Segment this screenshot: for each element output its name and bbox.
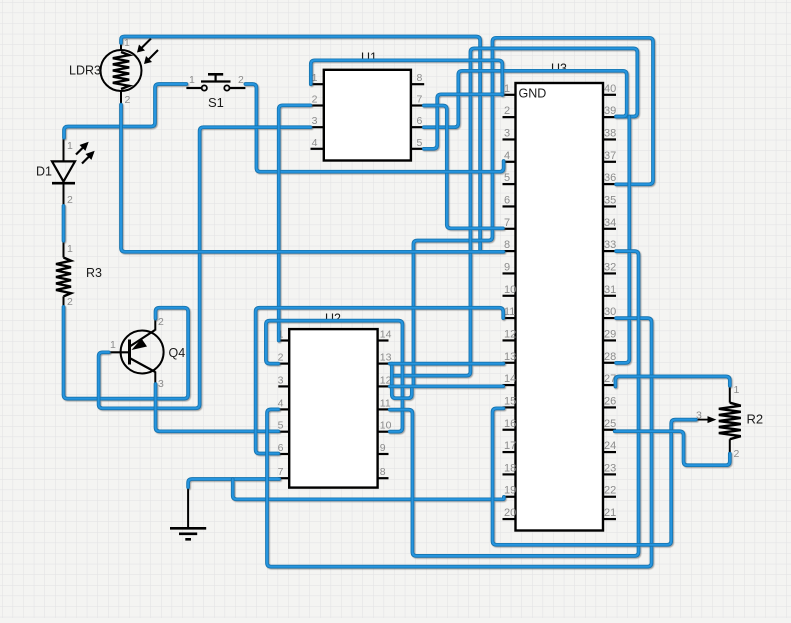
- svg-text:35: 35: [604, 194, 616, 206]
- svg-text:2: 2: [312, 94, 318, 106]
- U2 pin 9 stub: [378, 453, 389, 455]
- wire U2 pin12 to U3 pin14: [390, 384, 504, 388]
- U3 pin 16 stub: [503, 429, 516, 431]
- wire Q4 pin3 to U2 pin5: [156, 384, 279, 431]
- svg-text:4: 4: [312, 137, 318, 149]
- U2 pin 4 stub: [278, 408, 289, 410]
- svg-text:14: 14: [380, 329, 392, 341]
- svg-text:21: 21: [604, 507, 616, 519]
- U2 pin 1 stub: [278, 339, 289, 341]
- U1 pin 4 stub: [311, 148, 324, 150]
- svg-text:9: 9: [504, 261, 510, 273]
- wire LDR3 pin2 to U3 pin8: [121, 105, 504, 252]
- U3 pin 4 stub: [503, 161, 516, 163]
- svg-text:25: 25: [604, 418, 616, 430]
- U3 pin 36 stub: [603, 183, 616, 185]
- svg-text:5: 5: [504, 172, 510, 184]
- svg-text:LDR3: LDR3: [69, 64, 101, 78]
- svg-text:14: 14: [504, 373, 516, 385]
- transistor Q4: [109, 319, 164, 384]
- svg-text:11: 11: [504, 306, 515, 318]
- pushbutton S1: [186, 74, 245, 90]
- svg-text:30: 30: [604, 306, 616, 318]
- svg-text:34: 34: [604, 217, 616, 229]
- svg-text:U1: U1: [361, 51, 377, 65]
- wire U1 pin7 to U3 pin7: [424, 106, 503, 229]
- wire U1 pin5 to U3 pin1: [424, 94, 503, 149]
- wire U3 pin39 to U3 pin28: [616, 117, 629, 363]
- svg-text:R2: R2: [747, 412, 764, 427]
- U1 pin 1 stub: [311, 83, 324, 85]
- U3 pin 7 stub: [503, 228, 516, 230]
- svg-text:1: 1: [67, 243, 73, 255]
- U2 pin 13 stub: [378, 363, 389, 365]
- U3 pin 6 stub: [503, 205, 516, 207]
- wire U2 pin4 to U3 pin30: [267, 318, 652, 566]
- svg-text:2: 2: [67, 194, 73, 206]
- svg-text:8: 8: [417, 72, 423, 84]
- svg-text:20: 20: [504, 507, 516, 519]
- svg-text:32: 32: [604, 261, 616, 273]
- U3 pin 1 stub: [503, 94, 516, 96]
- svg-text:7: 7: [504, 217, 510, 229]
- U3 pin 11 stub: [503, 317, 516, 319]
- wire U1 pin6 to U3 pin39: [424, 71, 627, 127]
- U3 pin 31 stub: [603, 295, 616, 297]
- U2 pin 7 stub: [278, 477, 289, 479]
- svg-text:2: 2: [238, 74, 244, 86]
- U1 pin 3 stub: [311, 126, 324, 128]
- wire U1 pin2 to U2 pin1: [279, 105, 311, 340]
- U2 pin 5 stub: [278, 431, 289, 433]
- wire U1 pin3 to Q4 pin1: [99, 127, 311, 408]
- svg-text:29: 29: [604, 328, 616, 340]
- svg-text:1: 1: [67, 140, 73, 152]
- svg-text:24: 24: [604, 440, 616, 452]
- svg-text:S1: S1: [208, 95, 224, 110]
- LED D1: [52, 138, 95, 206]
- svg-text:D1: D1: [36, 165, 52, 179]
- U3 pin 13 stub: [503, 362, 516, 364]
- U3 pin 9 stub: [503, 272, 516, 274]
- U3 pin 35 stub: [603, 205, 616, 207]
- svg-text:28: 28: [604, 351, 616, 363]
- U3 pin 10 stub: [503, 295, 516, 297]
- U3 pin 20 stub: [503, 518, 516, 520]
- wire ground net to U3 pin19: [233, 479, 504, 499]
- wire U3 pin25 to R2 pin2: [615, 431, 730, 465]
- wire U2 pin2 to U2 pin10: [266, 321, 403, 432]
- U2 pin 8 stub: [378, 477, 389, 479]
- svg-text:18: 18: [504, 462, 516, 474]
- U3 pin 32 stub: [603, 272, 616, 274]
- svg-text:1: 1: [189, 74, 195, 86]
- svg-text:16: 16: [504, 418, 516, 430]
- U2 pin 10 stub: [378, 431, 389, 433]
- wire U2 pin11 to U3 pin33: [390, 251, 639, 556]
- svg-text:37: 37: [604, 150, 616, 162]
- U3 pin 33 stub: [603, 250, 616, 252]
- svg-text:Q4: Q4: [169, 346, 186, 360]
- svg-text:19: 19: [504, 485, 516, 497]
- svg-text:39: 39: [604, 105, 616, 117]
- U2 pin 11 stub: [378, 408, 389, 410]
- wire D1 pin2 to R3 pin1: [62, 206, 66, 241]
- IC U3 body: [516, 83, 604, 531]
- svg-text:26: 26: [604, 395, 616, 407]
- wire U1 pin1 to U3 pin1: [311, 60, 503, 95]
- U3 pin 30 stub: [603, 317, 616, 319]
- U1 pin 2 stub: [311, 104, 324, 106]
- U3 pin 12 stub: [503, 339, 516, 341]
- svg-text:36: 36: [604, 172, 616, 184]
- wire S1 pin1 to D1 pin1: [64, 84, 186, 138]
- U2 pin 12 stub: [378, 385, 389, 387]
- svg-text:U3: U3: [551, 62, 567, 76]
- U2 pin 6 stub: [278, 453, 289, 455]
- U3 pin 17 stub: [503, 451, 516, 453]
- U3 pin 14 stub: [503, 384, 516, 386]
- svg-text:6: 6: [504, 194, 510, 206]
- svg-text:2: 2: [158, 316, 164, 328]
- svg-text:R3: R3: [86, 266, 102, 280]
- U3 pin 19 stub: [503, 496, 516, 498]
- U3 pin 25 stub: [603, 429, 616, 431]
- wire ground to U2 pin7: [188, 479, 279, 487]
- svg-text:17: 17: [504, 440, 516, 452]
- U3 pin 8 stub: [503, 250, 516, 252]
- wire U3 pin15 to R2 pin3: [493, 408, 696, 544]
- U3 pin 21 stub: [603, 518, 616, 520]
- U1 pin 7 stub: [411, 104, 424, 106]
- svg-text:7: 7: [278, 466, 284, 478]
- svg-text:U2: U2: [325, 312, 341, 326]
- U3 pin 38 stub: [603, 138, 616, 140]
- wire LDR3 pin1 to net top: [121, 37, 480, 252]
- svg-text:3: 3: [504, 127, 510, 139]
- resistor R3: [56, 241, 71, 307]
- potentiometer R2: [696, 386, 741, 454]
- wire U2 pin13 to U3 pin14 link: [392, 364, 412, 399]
- wire U2 pin6 to U3 pin11: [256, 308, 504, 454]
- U1 pin 5 stub: [411, 148, 424, 150]
- U3 pin 28 stub: [603, 362, 616, 364]
- wire U3 pin27 to R2 pin1: [615, 376, 729, 386]
- wire R3 pin2 to Q4 pin2: [64, 307, 189, 399]
- svg-text:9: 9: [380, 442, 386, 454]
- svg-text:22: 22: [604, 485, 616, 497]
- U2 pin 3 stub: [278, 385, 289, 387]
- svg-text:40: 40: [604, 83, 616, 95]
- svg-text:15: 15: [504, 395, 516, 407]
- photoresistor LDR3: [101, 37, 159, 105]
- svg-text:1: 1: [504, 83, 510, 95]
- svg-text:33: 33: [604, 239, 616, 251]
- U3 pin 29 stub: [603, 339, 616, 341]
- svg-text:10: 10: [504, 284, 516, 296]
- U3 pin 26 stub: [603, 406, 616, 408]
- svg-text:13: 13: [504, 351, 516, 363]
- U3 pin 3 stub: [503, 138, 516, 140]
- wire U2 pin13 to U3 pin13: [390, 362, 504, 366]
- svg-text:31: 31: [604, 284, 616, 296]
- U1 pin 6 stub: [411, 126, 424, 128]
- svg-text:8: 8: [504, 239, 510, 251]
- wire S1 pin2 to U3 pin4: [245, 84, 503, 172]
- svg-text:3: 3: [312, 115, 318, 127]
- U1 pin 8 stub: [411, 83, 424, 85]
- svg-text:2: 2: [67, 296, 73, 308]
- U3 pin 27 stub: [603, 384, 616, 386]
- svg-text:12: 12: [504, 328, 516, 340]
- svg-text:11: 11: [380, 397, 391, 409]
- U3 pin 2 stub: [503, 116, 516, 118]
- svg-text:2: 2: [734, 448, 740, 460]
- U3 pin 15 stub: [503, 406, 516, 408]
- ground: [170, 487, 206, 539]
- svg-text:23: 23: [604, 462, 616, 474]
- svg-text:6: 6: [417, 115, 423, 127]
- svg-text:5: 5: [417, 137, 423, 149]
- svg-text:GND: GND: [519, 87, 547, 101]
- U3 pin 24 stub: [603, 451, 616, 453]
- svg-text:2: 2: [125, 94, 131, 106]
- svg-text:38: 38: [604, 127, 616, 139]
- U3 pin 37 stub: [603, 161, 616, 163]
- svg-text:3: 3: [278, 374, 284, 386]
- svg-text:1: 1: [124, 37, 130, 49]
- U2 pin 2 stub: [278, 363, 289, 365]
- svg-text:1: 1: [734, 384, 740, 396]
- svg-text:3: 3: [158, 378, 164, 390]
- svg-text:1: 1: [110, 339, 116, 351]
- U3 pin 22 stub: [603, 496, 616, 498]
- U3 pin 23 stub: [603, 473, 616, 475]
- wire U2 pin13 net to U3 pin39 (W_B): [392, 48, 638, 375]
- U3 pin 34 stub: [603, 228, 616, 230]
- U3 pin 5 stub: [503, 183, 516, 185]
- U3 pin 18 stub: [503, 473, 516, 475]
- svg-text:7: 7: [417, 94, 423, 106]
- U3 pin 39 stub: [603, 116, 616, 118]
- U2 pin 14 stub: [378, 339, 389, 341]
- IC U1 body: [324, 70, 411, 161]
- IC U2 body: [289, 329, 377, 488]
- U3 pin 40 stub: [603, 94, 616, 96]
- wire U3 pin36 to U2 pin12 net (W_A): [413, 38, 653, 387]
- svg-text:8: 8: [380, 466, 386, 478]
- svg-text:2: 2: [504, 105, 510, 117]
